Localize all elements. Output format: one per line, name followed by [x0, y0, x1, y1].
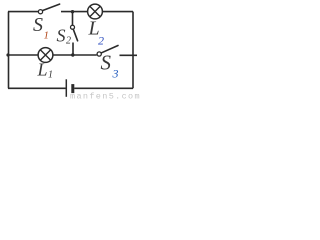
svg-text:S: S [33, 14, 43, 36]
svg-text:1: 1 [48, 70, 53, 81]
svg-text:S: S [101, 51, 112, 75]
svg-text:S: S [57, 26, 66, 46]
svg-text:manfen5.com: manfen5.com [70, 92, 140, 101]
svg-text:1: 1 [44, 30, 50, 42]
svg-text:2: 2 [66, 36, 71, 47]
svg-text:2: 2 [98, 34, 104, 48]
svg-text:3: 3 [112, 67, 119, 81]
svg-text:L: L [37, 60, 48, 80]
